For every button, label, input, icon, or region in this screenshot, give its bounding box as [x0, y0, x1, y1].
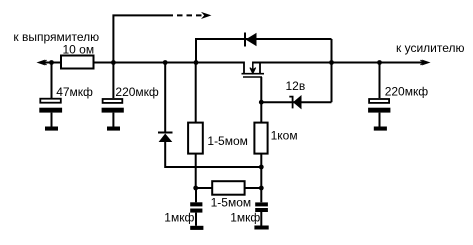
svg-text:1ком: 1ком	[271, 129, 298, 143]
wire diode VD3 branch (rail down)	[164, 63, 166, 133]
capacitor C2 220мкф (electrolytic)	[102, 99, 124, 127]
ground bar C3	[190, 226, 203, 230]
svg-text:220мкф: 220мкф	[385, 85, 429, 99]
label 1мкф left	[164, 210, 194, 224]
capacitor C3 1мкф	[190, 202, 202, 226]
svg-text:220мкф: 220мкф	[115, 85, 159, 99]
label к усилителю	[396, 41, 465, 55]
junction at lower node left	[193, 186, 198, 191]
junction at top branch	[111, 60, 116, 65]
diode VD1 across MOSFET (cathode left)	[245, 33, 257, 47]
svg-text:1мкф: 1мкф	[230, 210, 260, 224]
wire main rail right segment	[252, 62, 424, 64]
wire 1-5мом vertical top lead	[195, 63, 197, 124]
svg-text:47мкф: 47мкф	[56, 85, 93, 99]
junction at lower node right	[259, 186, 264, 191]
capacitor C1 47мкф (electrolytic)	[39, 99, 62, 127]
ground bar C2	[107, 127, 120, 131]
svg-text:10 ом: 10 ом	[63, 43, 95, 57]
svg-text:12в: 12в	[286, 79, 306, 93]
ground bar C1	[45, 127, 58, 131]
resistor R4 1-5мом (horizontal)	[212, 181, 244, 195]
junction at resistor branch	[194, 60, 199, 65]
wire 220мкф right top lead	[379, 63, 381, 99]
resistor R2 1-5мом (vertical)	[188, 123, 203, 154]
MOSFET Q1 substrate stub with arrow	[250, 62, 256, 74]
junction at gate/zener node	[259, 100, 264, 105]
wire top branch (up from rail, to dashed arrow)	[113, 15, 173, 62]
wire lower node (between caps)	[196, 187, 262, 189]
wire diode bottom to gate-node lower wire	[165, 142, 261, 168]
resistor R3 1ком (vertical)	[254, 123, 267, 154]
svg-text:1мкф: 1мкф	[164, 210, 194, 224]
wire 1мкф left top lead	[195, 188, 197, 202]
junction at output cap	[377, 60, 382, 65]
wire right vertical (top diode down through rail to zener)	[331, 39, 333, 102]
wire gate lead down	[260, 77, 262, 123]
resistor R1 10 ом	[61, 56, 94, 69]
wire 47мкф top lead	[51, 63, 53, 99]
dashed arrowhead	[202, 13, 210, 18]
label 1-5мом (R2)	[207, 134, 248, 148]
wire zener branch (gate node to source riser)	[261, 101, 331, 103]
junction at input cap	[49, 60, 54, 65]
label 12в	[286, 79, 306, 93]
junction at source riser	[329, 60, 334, 65]
wire top diode loop (drain to source over MOSFET)	[196, 39, 332, 63]
MOSFET Q1 left stub (drain)	[243, 62, 245, 74]
svg-text:1-5мом: 1-5мом	[207, 134, 248, 148]
wire 1ком bottom lead	[260, 154, 262, 188]
ground bar C4	[254, 226, 268, 230]
MOSFET Q1 channel bar	[242, 73, 265, 75]
junction at diode branch	[163, 60, 168, 65]
wire 1-5мом bottom lead	[195, 154, 197, 188]
svg-text:1-5мом: 1-5мом	[211, 196, 252, 210]
input arrow (к выпрямителю)	[38, 60, 47, 64]
ground bar C5	[374, 127, 387, 131]
MOSFET Q1 right stub (source)	[259, 62, 261, 74]
label 10 ом	[63, 43, 95, 57]
capacitor C5 220мкф (electrolytic)	[368, 99, 390, 127]
label 1мкф right	[230, 210, 260, 224]
diode VD3 vertical (cathode up)	[158, 133, 173, 143]
svg-text:к выпрямителю: к выпрямителю	[13, 30, 99, 44]
MOSFET Q1 gate bar	[243, 76, 262, 78]
zener diode VD2 12в (cathode left with wing)	[289, 95, 301, 109]
wire 220мкф left top lead	[112, 63, 114, 99]
capacitor C4 1мкф	[255, 202, 268, 225]
label 47мкф	[56, 85, 93, 99]
label 220мкф right	[385, 85, 429, 99]
output arrow (к усилителю)	[420, 60, 429, 64]
wire dashed segment	[177, 14, 202, 16]
label 220мкф left	[115, 85, 159, 99]
junction at 1ком bottom node	[259, 165, 264, 170]
svg-text:к усилителю: к усилителю	[396, 41, 465, 55]
label 1ком	[271, 129, 298, 143]
wire main rail left segment	[42, 62, 244, 64]
wire 1мкф right top lead	[260, 188, 262, 202]
label к выпрямителю	[13, 30, 99, 44]
label 1-5мом (R4)	[211, 196, 252, 210]
